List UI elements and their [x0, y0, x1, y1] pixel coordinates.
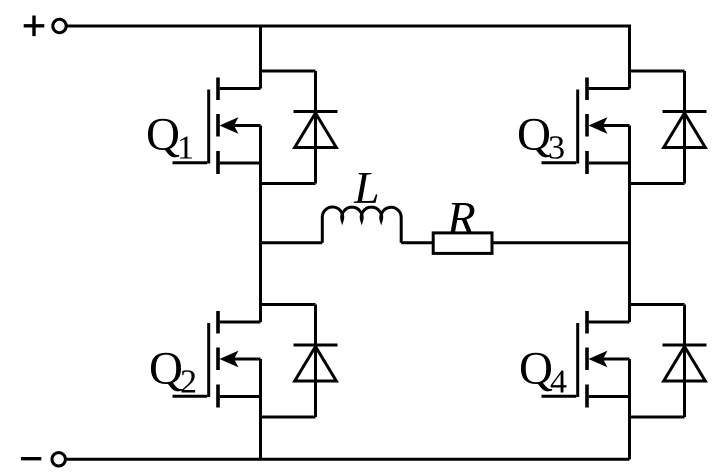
wire left bridge midpoint: [259, 126, 262, 323]
diode D1: [261, 71, 338, 184]
wire bottom rail: [67, 458, 630, 461]
svg-text:Q4: Q4: [519, 343, 567, 401]
transistor Q3: [542, 78, 630, 175]
minus terminal: [21, 453, 65, 466]
svg-text:Q1: Q1: [146, 109, 194, 167]
diode D2: [261, 305, 338, 418]
transistor Q4: [542, 311, 630, 408]
inductor L: [322, 207, 401, 243]
plus terminal: [24, 16, 66, 37]
transistor Q2: [173, 311, 261, 408]
svg-text:R: R: [446, 193, 476, 245]
wire Q3 drain drop: [628, 25, 631, 89]
wire top rail: [68, 25, 630, 28]
wire output node to inductor: [261, 241, 323, 244]
wire Q4 source to bottom rail: [628, 359, 631, 459]
wire inductor to resistor: [401, 241, 433, 244]
svg-text:Q2: Q2: [149, 343, 197, 401]
wire resistor to right midpoint: [492, 241, 630, 244]
svg-text:Q3: Q3: [517, 109, 565, 167]
svg-text:L: L: [353, 162, 380, 213]
wire Q1 drain drop: [259, 25, 262, 89]
wire right bridge midpoint: [628, 126, 631, 323]
diode D3: [630, 71, 707, 184]
resistor R: [433, 233, 492, 254]
wire Q2 source to bottom rail: [259, 359, 262, 459]
transistor Q1: [173, 78, 261, 175]
diode D4: [630, 305, 707, 418]
